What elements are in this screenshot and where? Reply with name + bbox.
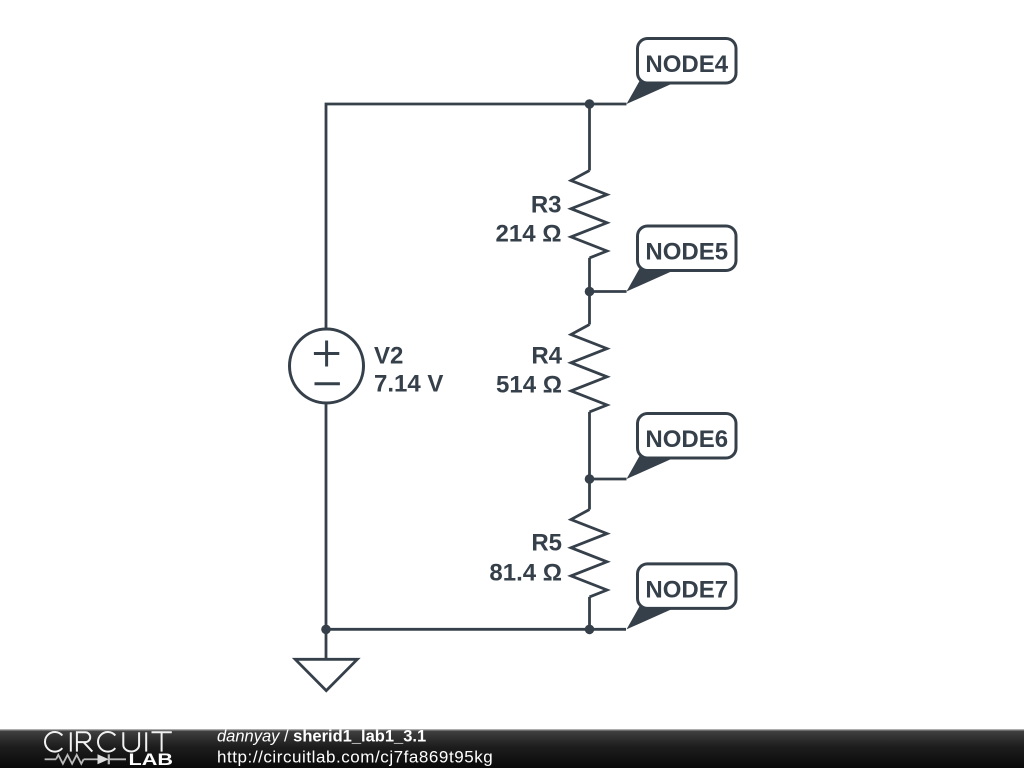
svg-text:514 Ω: 514 Ω <box>496 372 562 399</box>
svg-text:http://circuitlab.com/cj7fa869: http://circuitlab.com/cj7fa869t95kg <box>217 748 493 767</box>
svg-text:NODE4: NODE4 <box>645 51 728 78</box>
svg-text:R3: R3 <box>531 191 562 218</box>
svg-text:7.14 V: 7.14 V <box>374 371 443 398</box>
svg-text:LAB: LAB <box>129 750 174 768</box>
svg-text:dannyay / sherid1_lab1_3.1: dannyay / sherid1_lab1_3.1 <box>217 728 426 746</box>
svg-text:NODE6: NODE6 <box>645 426 728 453</box>
svg-text:NODE5: NODE5 <box>645 239 728 266</box>
svg-text:V2: V2 <box>374 343 403 370</box>
svg-text:81.4 Ω: 81.4 Ω <box>489 560 562 587</box>
svg-text:214 Ω: 214 Ω <box>496 221 562 248</box>
svg-text:R4: R4 <box>531 343 562 370</box>
svg-text:R5: R5 <box>531 530 562 557</box>
svg-text:NODE7: NODE7 <box>645 576 728 603</box>
